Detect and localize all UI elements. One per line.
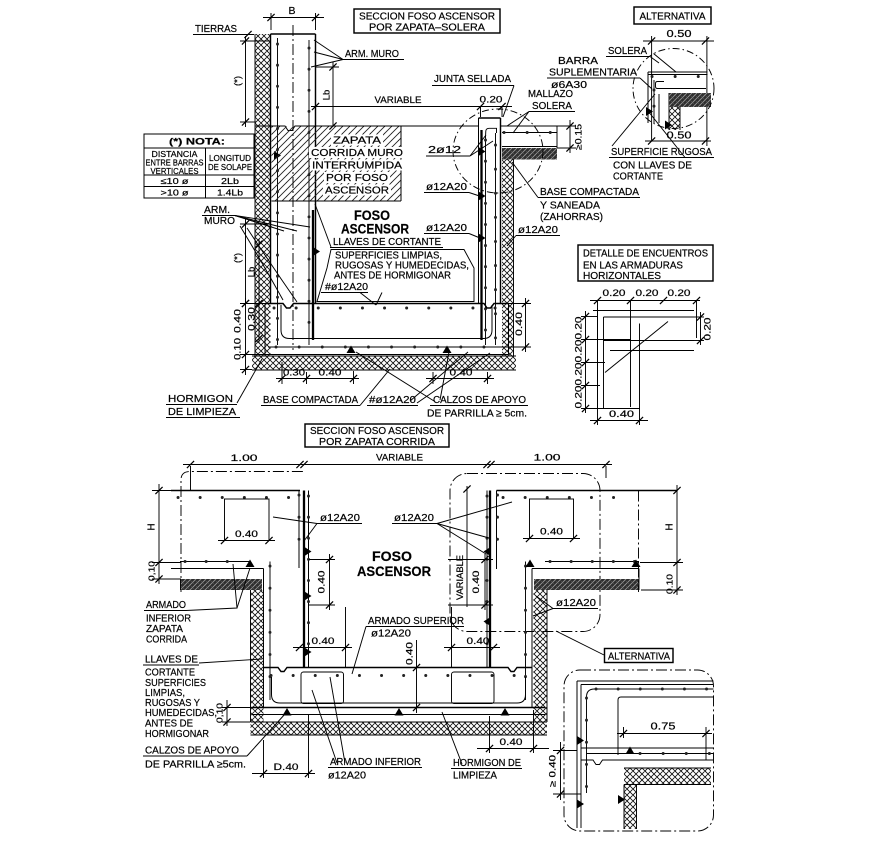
ext line inner right wall xyxy=(463,485,470,607)
svg-text:0.20: 0.20 xyxy=(574,386,585,409)
footing bottom triangles right xyxy=(526,560,641,568)
svg-text:0.40: 0.40 xyxy=(500,737,523,748)
svg-text:CORRIDA: CORRIDA xyxy=(146,634,187,646)
box ALTERNATIVA (top) xyxy=(634,7,711,24)
svg-text:DE PARRILLA ≥ 5cm.: DE PARRILLA ≥ 5cm. xyxy=(427,408,527,420)
svg-text:ø12A20: ø12A20 xyxy=(328,770,366,782)
alt rebar marks xyxy=(577,736,625,809)
svg-text:0.50: 0.50 xyxy=(667,131,693,142)
svg-text:1.00: 1.00 xyxy=(231,453,258,464)
svg-text:MURO: MURO xyxy=(204,215,235,227)
svg-text:1.00: 1.00 xyxy=(534,453,561,464)
label CALZOS DE APOYO (bottom fig) xyxy=(143,714,285,771)
svg-text:ø12A20: ø12A20 xyxy=(371,628,411,640)
floor stirrup box left (in slab) xyxy=(301,672,344,704)
right wall rebar xyxy=(482,128,497,345)
pit floor mesh U xyxy=(281,305,492,339)
dim (*) lower left xyxy=(233,219,272,307)
left wall at depth xyxy=(264,562,271,708)
svg-text:TIERRAS: TIERRAS xyxy=(195,23,237,35)
dim 0.30 left inner xyxy=(247,298,263,343)
svg-text:0.20: 0.20 xyxy=(636,288,659,299)
svg-text:LIMPIEZA: LIMPIEZA xyxy=(453,770,497,782)
label HORMIGON DE LIMPIEZA (top fig) xyxy=(166,359,262,418)
detail rebar marks (alt) xyxy=(646,107,672,130)
label SOLERA (alt) xyxy=(606,45,659,63)
svg-text:≤10 ø: ≤10 ø xyxy=(161,176,189,186)
earth band under solera xyxy=(502,160,514,357)
svg-text:VARIABLE: VARIABLE xyxy=(375,95,422,106)
svg-text:ASCENSOR: ASCENSOR xyxy=(357,564,431,579)
right wall rebar marks xyxy=(484,547,491,626)
corner walls (detalle) xyxy=(593,308,694,408)
svg-text:0.40: 0.40 xyxy=(319,368,342,379)
dim Lb lower xyxy=(247,239,263,307)
svg-text:0,10: 0,10 xyxy=(147,561,157,581)
earth band bottom (bottom fig) xyxy=(251,722,548,735)
footing bottom triangle left xyxy=(246,560,255,568)
stirrup box 0.40 right footing xyxy=(523,499,580,542)
pit floor lower rebar xyxy=(268,346,505,348)
right footing underside xyxy=(532,562,639,569)
compacted base dark band (right) xyxy=(502,148,557,160)
title box: SECCION FOSO ASCENSOR POR ZAPATA CORRIDA xyxy=(305,424,449,448)
svg-text:HORMIGON: HORMIGON xyxy=(168,393,233,405)
alt slab triangle xyxy=(626,747,635,755)
svg-text:2Lb: 2Lb xyxy=(221,176,239,186)
svg-text:Lb: Lb xyxy=(247,267,258,278)
svg-text:0.20: 0.20 xyxy=(574,317,585,340)
callout box SUPERFICIES LIMPIAS xyxy=(317,250,474,302)
svg-text:ø12A20: ø12A20 xyxy=(556,597,596,609)
dims 0.20 x4 left (detalle) xyxy=(574,311,641,413)
svg-text:BARRA: BARRA xyxy=(558,55,598,67)
svg-text:VERTICALES: VERTICALES xyxy=(151,167,199,176)
svg-text:≥0.15: ≥0.15 xyxy=(574,124,584,150)
svg-text:HORMIGON DE: HORMIGON DE xyxy=(453,757,521,769)
title box: SECCION FOSO ASCENSOR POR ZAPATA-SOLERA xyxy=(354,9,500,34)
detail circle (alt) xyxy=(633,49,714,129)
label o12A20 (wall b) xyxy=(424,222,480,238)
dim 0.40 right of floor xyxy=(505,298,531,352)
svg-text:SUPERFICIE RUGOSA: SUPERFICIE RUGOSA xyxy=(611,146,712,158)
label JUNTA SELLADA xyxy=(432,73,514,117)
svg-text:ø6A30: ø6A30 xyxy=(551,80,588,91)
dim 0.40 bottom (detalle) xyxy=(590,407,648,425)
alt wall double lines xyxy=(577,681,714,828)
dim 0.40 left wall vertical xyxy=(309,554,335,610)
dim 0.75 xyxy=(617,722,712,761)
svg-text:ANTES DE HORMIGONAR: ANTES DE HORMIGONAR xyxy=(334,271,451,282)
svg-text:0.20: 0.20 xyxy=(703,318,714,341)
right wall faces (top figure) xyxy=(479,118,501,304)
dim 0.40 bottom right xyxy=(426,368,494,385)
svg-text:0.30: 0.30 xyxy=(247,307,258,331)
right pit wall xyxy=(487,491,498,668)
label ARM. MURO (top) xyxy=(311,40,404,67)
svg-text:LLAVES DE: LLAVES DE xyxy=(145,654,198,666)
svg-text:1.4Lb: 1.4Lb xyxy=(217,188,243,198)
svg-text:BASE COMPACTADA: BASE COMPACTADA xyxy=(263,394,358,406)
right compacted dark band xyxy=(534,569,639,591)
label CALZOS DE APOYO xyxy=(356,352,528,420)
svg-text:0.40: 0.40 xyxy=(317,571,328,594)
detail solera top (alt) xyxy=(648,54,708,77)
svg-text:FOSO: FOSO xyxy=(372,549,412,564)
svg-text:SUPLEMENTARIA: SUPLEMENTARIA xyxy=(549,67,637,79)
svg-text:(ZAHORRAS): (ZAHORRAS) xyxy=(540,211,603,223)
right footing dash-dot boundary xyxy=(450,474,600,632)
detail earth band (alt) xyxy=(669,107,680,130)
svg-text:0.40: 0.40 xyxy=(235,529,258,540)
svg-text:D.40: D.40 xyxy=(274,762,299,773)
alt slab lines xyxy=(581,748,714,765)
label BARRA SUPLEMENTARIA o6A30 xyxy=(547,55,652,91)
dims 1.00 VARIABLE 1.00 top xyxy=(183,453,612,491)
svg-text:0.40: 0.40 xyxy=(233,309,244,333)
svg-text:0.10: 0.10 xyxy=(233,338,244,360)
left footing underside xyxy=(171,562,264,569)
svg-text:Lb: Lb xyxy=(322,90,333,101)
svg-text:0.10: 0.10 xyxy=(665,574,675,594)
stirrup box 0.40 left footing xyxy=(218,499,275,544)
right footing top xyxy=(497,491,678,498)
label FOSO ASCENSOR (top figure) xyxy=(341,208,409,237)
svg-text:SOLERA: SOLERA xyxy=(532,100,572,112)
svg-text:0.40: 0.40 xyxy=(467,636,490,647)
pit floor top rebar (bottom fig) xyxy=(271,674,524,677)
box DETALLE DE ENCUENTROS xyxy=(578,245,713,282)
pit floor surface (bottom fig) xyxy=(264,668,533,672)
label o12A20 (right wall) xyxy=(392,502,512,554)
pit floor slab outline xyxy=(265,304,509,355)
dim H right xyxy=(640,485,683,567)
ground line at zapata top xyxy=(255,126,479,131)
dim 0.20 right (detalle) xyxy=(694,312,714,345)
dim 0.10 left xyxy=(147,561,182,584)
svg-text:CORRIDA MURO: CORRIDA MURO xyxy=(311,148,403,159)
left compacted dark band xyxy=(181,579,263,590)
box ALTERNATIVA (bottom) xyxy=(556,631,673,663)
svg-text:HORMIGONAR: HORMIGONAR xyxy=(145,728,209,740)
svg-text:0.75: 0.75 xyxy=(651,722,677,733)
svg-text:0.50: 0.50 xyxy=(667,29,693,40)
svg-text:ø12A20: ø12A20 xyxy=(426,181,467,193)
corner rebar vertical bars (detalle) xyxy=(631,317,640,407)
earth hatch left of wall xyxy=(255,34,271,356)
label o12A20 (wall a) xyxy=(424,181,481,197)
svg-text:0.20: 0.20 xyxy=(668,288,691,299)
svg-text:DETALLE DE ENCUENTROS: DETALLE DE ENCUENTROS xyxy=(583,249,708,260)
left wall faces xyxy=(271,34,316,304)
svg-text:DE SOLAPE: DE SOLAPE xyxy=(208,163,252,172)
svg-text:ASCENSOR: ASCENSOR xyxy=(325,186,389,197)
label o12A20 (right, at base) xyxy=(533,596,598,616)
dim 0.10 slab left xyxy=(215,700,253,726)
dim 0.40 slab center xyxy=(405,640,421,713)
dim B over wall xyxy=(263,5,324,30)
svg-text:0.40: 0.40 xyxy=(609,409,634,420)
svg-text:DE LIMPIEZA: DE LIMPIEZA xyxy=(168,406,236,418)
svg-text:ARMADO SUPERIOR: ARMADO SUPERIOR xyxy=(368,615,464,627)
left wall rebar xyxy=(278,38,314,345)
left footing top xyxy=(171,491,300,498)
right wall at depth xyxy=(526,562,533,708)
dim 0.40/0.10 left of floor xyxy=(233,298,266,375)
svg-text:B: B xyxy=(288,5,295,17)
left footing dash-dot boundary xyxy=(181,472,305,593)
svg-text:0.20: 0.20 xyxy=(603,288,626,299)
label o12A20 (base) xyxy=(507,224,560,246)
alt inner face xyxy=(618,697,714,755)
dim 0.40 wall-at-depth bottom left xyxy=(252,714,315,778)
label LLAVES DE CORTANTE xyxy=(315,204,443,248)
dim VARIABLE and 0.20 line xyxy=(311,95,512,118)
svg-text:ø12A20: ø12A20 xyxy=(426,222,467,234)
dim 0.40 right wall vertical xyxy=(448,554,493,610)
svg-text:POR ZAPATA–SOLERA: POR ZAPATA–SOLERA xyxy=(369,22,485,34)
label ARMADO INFERIOR ZAPATA CORRIDA xyxy=(144,564,250,646)
dims 0.30 0.40 bottom xyxy=(276,362,359,384)
svg-text:CALZOS DE APOYO: CALZOS DE APOYO xyxy=(433,394,526,406)
svg-text:0.40: 0.40 xyxy=(312,636,335,647)
label LLAVES DE CORTANTE block (bottom fig) xyxy=(143,654,262,741)
left wall rebar marks xyxy=(274,151,320,256)
dim 0.10 right xyxy=(641,567,683,595)
svg-text:CORTANTE: CORTANTE xyxy=(613,171,663,183)
svg-text:Y SANEADA: Y SANEADA xyxy=(540,200,600,212)
svg-text:DE PARRILLA ≥5cm.: DE PARRILLA ≥5cm. xyxy=(145,759,246,771)
dim 0.40 floor right xyxy=(444,636,500,651)
detail wall (alt) xyxy=(648,72,706,130)
dim H left xyxy=(147,484,182,567)
svg-text:ALTERNATIVA: ALTERNATIVA xyxy=(640,12,706,23)
label 2o12 xyxy=(426,135,493,156)
left pit wall xyxy=(299,491,309,668)
svg-text:H: H xyxy=(665,523,676,530)
right earth band (bottom fig) xyxy=(534,590,548,722)
svg-text:≥ 0.40: ≥ 0.40 xyxy=(548,755,558,787)
alt earth band horizontal xyxy=(624,768,711,785)
NOTA table xyxy=(144,134,254,198)
right footing centerline xyxy=(638,491,640,593)
svg-text:0.20: 0.20 xyxy=(574,363,585,386)
svg-text:CALZOS DE APOYO: CALZOS DE APOYO xyxy=(145,745,239,757)
pit floor top rebar xyxy=(274,307,498,310)
zapata corrida hatch xyxy=(272,127,402,202)
dim >=0.40 (alt) xyxy=(548,742,582,800)
dims 0.20 x3 top (detalle) xyxy=(590,288,700,338)
calzos triangles (bottom fig) xyxy=(283,708,510,716)
svg-text:ARMADO: ARMADO xyxy=(146,599,186,611)
detail dark band (alt) xyxy=(669,93,711,107)
svg-text:LLAVES DE CORTANTE: LLAVES DE CORTANTE xyxy=(333,236,441,248)
floor stirrup box right (in slab) xyxy=(452,672,495,704)
svg-text:ø12A20: ø12A20 xyxy=(394,512,434,524)
left wall rebar marks xyxy=(305,547,312,657)
svg-text:ARM. MURO: ARM. MURO xyxy=(345,48,399,60)
svg-text:H: H xyxy=(147,523,158,530)
svg-text:(*): (*) xyxy=(233,253,244,263)
svg-text:LONGITUD: LONGITUD xyxy=(209,154,251,163)
label ARM./MURO (left) xyxy=(202,204,310,302)
solera slab right xyxy=(501,126,558,148)
label BASE COMPACTADA Y SANEADA (ZAHORRAS) xyxy=(512,162,640,223)
slab bottom lines (bottom fig) xyxy=(252,708,545,715)
label MALLAZO SOLERA xyxy=(507,88,575,133)
label ARMADO INFERIOR o12A20 (slab) xyxy=(312,677,422,782)
svg-text:0.30: 0.30 xyxy=(283,368,305,379)
floor stirrup risers xyxy=(346,607,452,668)
label TIERRAS xyxy=(193,23,254,38)
svg-text:JUNTA SELLADA: JUNTA SELLADA xyxy=(434,73,511,85)
label HORMIGON DE LIMPIEZA (bottom fig) xyxy=(442,712,522,782)
dim Lb upper xyxy=(316,62,339,130)
left earth band (bottom fig) xyxy=(251,590,264,722)
corner rebar horizontal bars (detalle) xyxy=(604,341,695,351)
dim 0.50 bottom of detail xyxy=(645,131,711,145)
svg-text:0.40: 0.40 xyxy=(405,642,416,665)
svg-text:(*): (*) xyxy=(233,76,244,86)
svg-text:ZAPATA: ZAPATA xyxy=(333,136,381,147)
svg-text:0.20: 0.20 xyxy=(480,95,503,106)
svg-text:VARIABLE: VARIABLE xyxy=(376,453,423,464)
dim 0.40 wall-at-depth bottom right xyxy=(477,710,549,753)
dim 0.40 floor left xyxy=(293,636,352,651)
svg-text:ALTERNATIVA: ALTERNATIVA xyxy=(608,652,670,663)
pit floor mesh U (bottom fig) xyxy=(272,677,526,703)
svg-text:#ø12A20: #ø12A20 xyxy=(369,394,416,406)
label BASE COMPACTADA (bottom) xyxy=(261,369,390,406)
svg-text:0.40: 0.40 xyxy=(540,527,563,538)
label #o12A20 (mesh) xyxy=(321,281,382,305)
svg-text:VARIABLE: VARIABLE xyxy=(455,555,465,600)
pit floor surface (top fig) xyxy=(265,304,509,309)
svg-text:0.40: 0.40 xyxy=(471,571,482,594)
svg-text:EN LAS ARMADURAS: EN LAS ARMADURAS xyxy=(583,261,683,272)
label #o12A20 (floor mesh) xyxy=(367,352,490,406)
left wall centerline xyxy=(292,25,294,350)
calzos triangles (top fig) xyxy=(347,346,452,354)
label ARMADO SUPERIOR xyxy=(352,615,464,674)
zapata text block xyxy=(309,135,405,197)
label FOSO ASCENSOR (bottom fig) xyxy=(357,549,431,579)
svg-text:INTERRUMPIDA: INTERRUMPIDA xyxy=(312,161,402,172)
alt detail boundary xyxy=(564,670,714,831)
svg-text:0.40: 0.40 xyxy=(514,312,525,336)
alt rebar L xyxy=(587,689,714,793)
earth band under floor (top fig) xyxy=(252,356,516,370)
svg-text:0.20: 0.20 xyxy=(574,340,585,363)
dim >=0.15 xyxy=(557,120,584,153)
dim (*) upper left xyxy=(233,36,272,127)
svg-text:BASE COMPACTADA: BASE COMPACTADA xyxy=(540,186,639,198)
svg-text:(*) NOTA:: (*) NOTA: xyxy=(169,137,225,147)
svg-text:ø12A20: ø12A20 xyxy=(518,224,558,236)
label o12A20 (left wall) xyxy=(273,512,362,541)
detail circle (junta zone) xyxy=(453,109,543,193)
svg-text:#ø12A20: #ø12A20 xyxy=(325,281,368,293)
corner diagonal bar (detalle) xyxy=(605,322,668,373)
svg-text:SOLERA: SOLERA xyxy=(608,45,647,57)
dim 0.50 top of detail xyxy=(643,29,714,146)
svg-text:>10 ø: >10 ø xyxy=(161,188,189,198)
svg-text:ø12A20: ø12A20 xyxy=(320,512,360,524)
svg-text:POR ZAPATA CORRIDA: POR ZAPATA CORRIDA xyxy=(319,436,435,448)
right wall rebar marks xyxy=(479,147,486,243)
alt earth band vertical xyxy=(624,785,637,830)
svg-text:HORIZONTALES: HORIZONTALES xyxy=(583,271,661,282)
svg-text:2ø12: 2ø12 xyxy=(428,144,461,156)
svg-text:POR FOSO: POR FOSO xyxy=(326,173,388,184)
label SUPERFICIE RUGOSA xyxy=(609,94,714,183)
svg-text:ASCENSOR: ASCENSOR xyxy=(341,222,409,237)
